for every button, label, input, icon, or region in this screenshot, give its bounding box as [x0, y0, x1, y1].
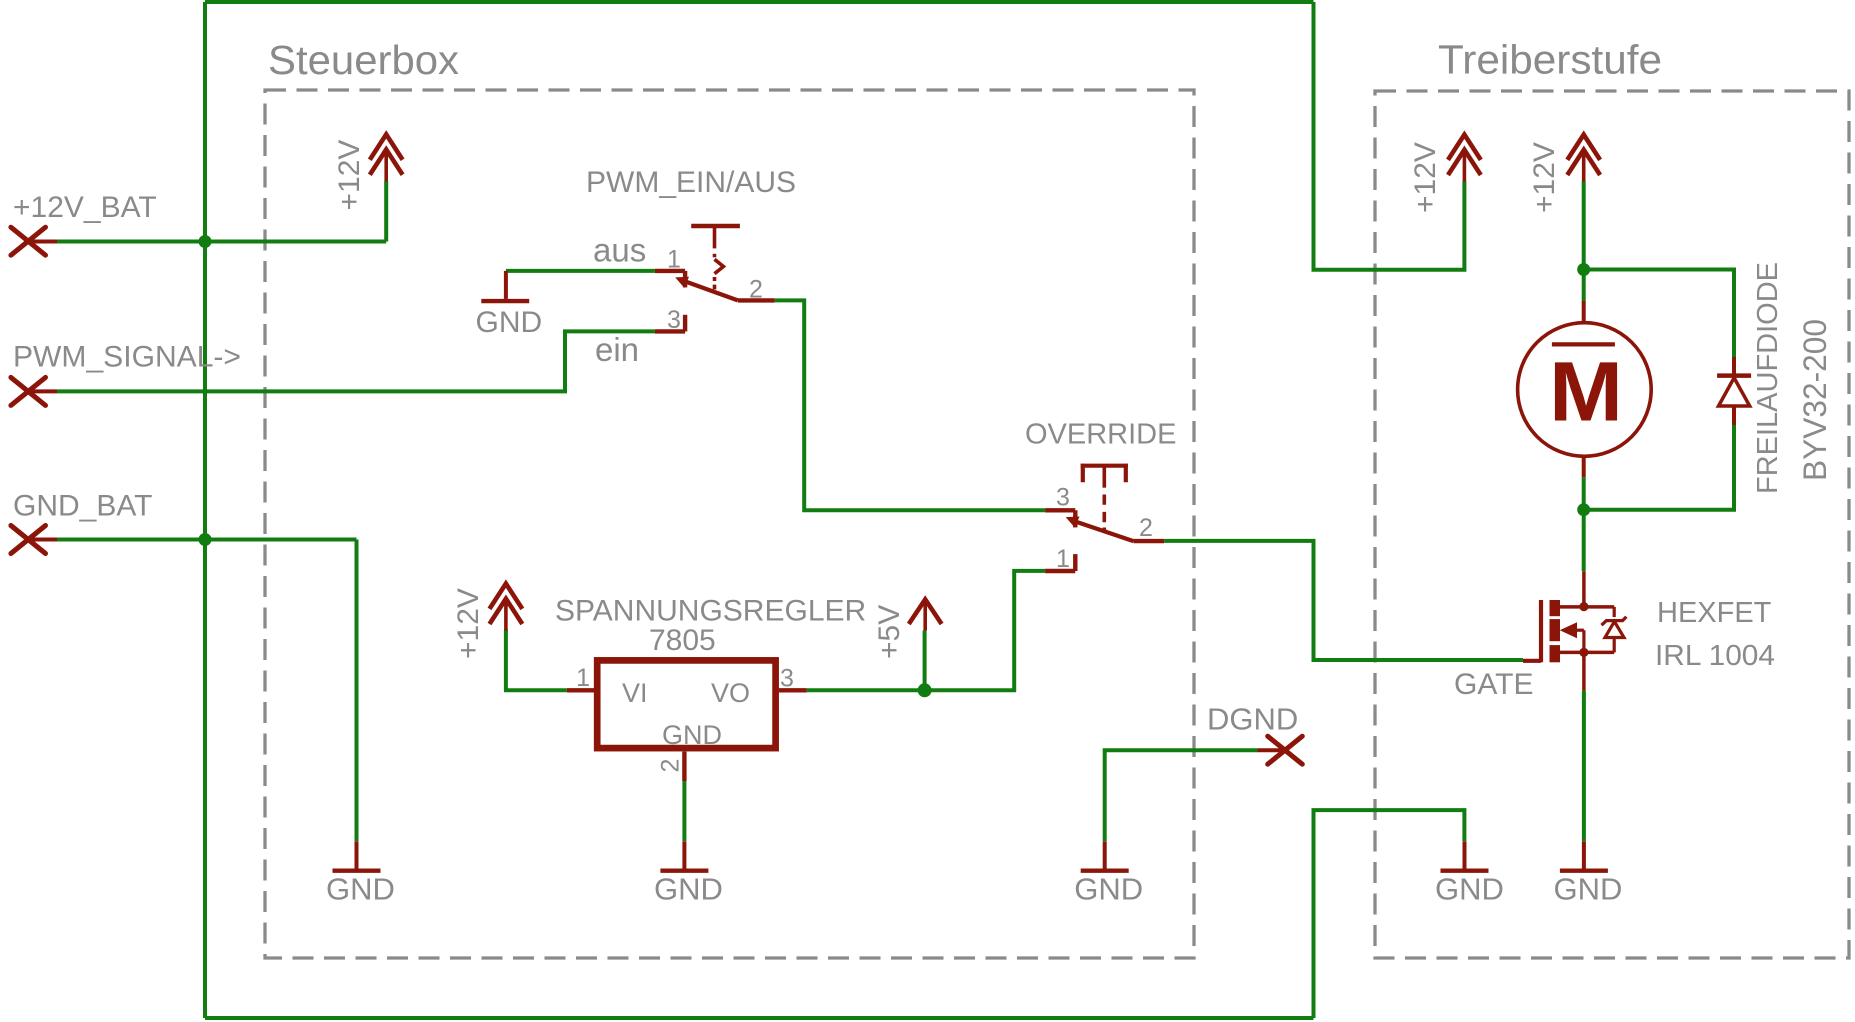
- wire GND_BAT to GND symbol: [57, 540, 357, 842]
- svg-text:SPANNUNGSREGLER: SPANNUNGSREGLER: [555, 595, 866, 628]
- wire diode branch top: [1584, 270, 1734, 358]
- svg-text:3: 3: [667, 306, 681, 334]
- svg-text:Steuerbox: Steuerbox: [268, 37, 460, 83]
- motor M body: [1518, 323, 1652, 457]
- svg-text:GND: GND: [1553, 872, 1622, 907]
- pin mark X +12V_BAT: [11, 227, 46, 255]
- wire switch pin2 to OVERRIDE pin3: [775, 300, 1045, 510]
- wire +12V_BAT top border: [205, 0, 1314, 4]
- pin 2 stub: [682, 752, 686, 781]
- svg-text:+12V: +12V: [452, 588, 485, 659]
- supply symbol +12V (motor): [1567, 135, 1600, 182]
- svg-text:GATE: GATE: [1454, 668, 1533, 701]
- diode D1 pin bottom: [1732, 406, 1736, 425]
- wire left border (+12V_BAT / GND_BAT vertical): [203, 2, 207, 1018]
- wire +12V to motor: [1582, 182, 1586, 302]
- svg-text:GND: GND: [1074, 872, 1143, 907]
- pin mark X GND_BAT: [11, 526, 46, 554]
- wire MOSFET source to ground: [1582, 691, 1586, 841]
- wire DGND stub: [1258, 748, 1286, 752]
- svg-text:DGND: DGND: [1207, 702, 1298, 737]
- svg-text:ein: ein: [595, 331, 639, 368]
- junction motor/diode bottom: [1577, 503, 1590, 516]
- switch S1 PWM_EIN/AUS: [655, 226, 775, 331]
- svg-text:PWM_SIGNAL->: PWM_SIGNAL->: [13, 341, 241, 374]
- motor M pin bottom: [1582, 456, 1586, 477]
- ground GND (aus): [481, 271, 529, 301]
- pin 3 stub: [779, 688, 807, 692]
- svg-text:7805: 7805: [649, 624, 716, 657]
- transistor Q1 HEXFET IRL1004: [1523, 571, 1626, 691]
- ground GND (MOSFET source): [1560, 841, 1608, 871]
- ground GND (Treiberstufe left): [1441, 841, 1489, 871]
- switch S2 OVERRIDE: [1045, 464, 1164, 571]
- svg-text:OVERRIDE: OVERRIDE: [1025, 419, 1176, 451]
- junction +5V: [918, 683, 932, 697]
- regulator IC1 7805 body: [597, 660, 775, 748]
- svg-text:+12V: +12V: [1409, 142, 1442, 213]
- pin mark X PWM_SIGNAL: [11, 377, 46, 405]
- pin mark X DGND: [1268, 736, 1303, 764]
- svg-text:GND: GND: [654, 872, 723, 907]
- wire 7805 GND pin to ground: [682, 781, 686, 841]
- svg-text:IRL 1004: IRL 1004: [1655, 640, 1775, 672]
- wire motor bottom to MOSFET drain: [1582, 477, 1586, 571]
- supply symbol +5V: [909, 599, 942, 630]
- wire bottom-right GND feed to Treiberstufe: [1314, 810, 1465, 1018]
- svg-text:GND_BAT: GND_BAT: [13, 490, 152, 523]
- wire 7805 VI to +12V arrow: [506, 630, 567, 691]
- svg-text:1: 1: [667, 246, 681, 274]
- diode D1 cathode bar: [1717, 373, 1751, 378]
- motor M pin top: [1582, 301, 1586, 323]
- svg-text:+12V_BAT: +12V_BAT: [13, 191, 157, 224]
- svg-text:GND: GND: [326, 872, 395, 907]
- svg-text:BYV32-200: BYV32-200: [1797, 319, 1833, 481]
- wire PWM_SIGNAL stub: [28, 389, 57, 393]
- svg-text:GND: GND: [662, 720, 722, 750]
- svg-text:3: 3: [780, 665, 794, 693]
- svg-text:1: 1: [576, 664, 590, 692]
- supply symbol +12V (7805): [490, 584, 523, 631]
- wire bottom border (GND_BAT): [205, 1016, 1314, 1020]
- wire diode bottom branch: [1584, 425, 1734, 510]
- supply symbol +12V (Treiberstufe left): [1448, 135, 1481, 182]
- svg-text:VI: VI: [622, 678, 648, 708]
- svg-text:PWM_EIN/AUS: PWM_EIN/AUS: [586, 166, 796, 199]
- wire +12V_BAT stub: [28, 240, 57, 244]
- svg-text:aus: aus: [593, 232, 646, 269]
- ground GND (below GND_BAT wire): [333, 841, 381, 871]
- svg-text:GND: GND: [1435, 872, 1504, 907]
- wire GND_BAT stub: [28, 538, 57, 542]
- ground GND (DGND): [1081, 841, 1129, 871]
- motor M overline: [1552, 342, 1615, 346]
- svg-text:M: M: [1549, 344, 1623, 438]
- frame Steuerbox box (dashed): [265, 90, 1194, 958]
- svg-text:2: 2: [749, 276, 763, 304]
- diode D1 triangle: [1719, 378, 1750, 406]
- frame Treiberstufe box (dashed): [1375, 91, 1849, 958]
- pin 1 stub: [567, 688, 594, 692]
- junction motor/diode top: [1577, 263, 1590, 276]
- wire +12V_BAT to junction and +12V arrow: [57, 181, 386, 242]
- svg-text:+12V: +12V: [333, 140, 366, 211]
- svg-text:FREILAUFDIODE: FREILAUFDIODE: [1752, 262, 1784, 494]
- wire DGND to ground: [1105, 750, 1258, 841]
- wire OVERRIDE pin2 to GATE: [1164, 541, 1523, 660]
- svg-text:1: 1: [1056, 545, 1070, 573]
- diode D1 BYV32-200 pin top: [1732, 357, 1736, 374]
- svg-text:GND: GND: [476, 306, 543, 339]
- svg-text:3: 3: [1056, 484, 1070, 512]
- wire top-right +12V feed to Treiberstufe: [1314, 2, 1465, 270]
- svg-text:Treiberstufe: Treiberstufe: [1438, 37, 1662, 83]
- junction +12V_BAT/border: [199, 235, 212, 248]
- wire 7805 VO to +5V and OVERRIDE pin1: [807, 571, 1045, 690]
- ground GND (7805): [660, 841, 708, 871]
- supply symbol +12V (Steuerbox top): [370, 134, 403, 181]
- junction GND_BAT/border: [199, 533, 212, 546]
- wire PWM_SIGNAL to switch pin 3: [57, 331, 655, 391]
- svg-text:VO: VO: [711, 678, 750, 708]
- wire +5V arrow stem: [923, 631, 927, 691]
- wire aus to GND: [506, 269, 655, 273]
- svg-text:2: 2: [1139, 514, 1153, 542]
- svg-text:+12V: +12V: [1528, 142, 1561, 213]
- svg-text:2: 2: [657, 759, 685, 773]
- svg-text:HEXFET: HEXFET: [1657, 597, 1772, 629]
- svg-text:+5V: +5V: [873, 605, 906, 659]
